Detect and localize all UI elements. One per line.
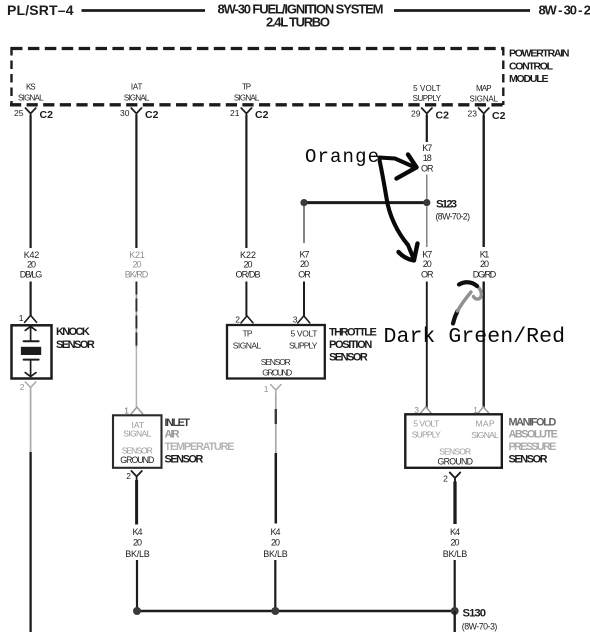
svg-text:SIGNAL: SIGNAL [123,429,151,439]
svg-text:C2: C2 [145,109,159,121]
pin 21 C2 TP SIGNAL [230,83,269,122]
svg-text:INLET: INLET [165,417,191,429]
svg-text:25: 25 [14,108,24,118]
PCM dashed box [10,47,504,105]
wire TP pin21 to K22 label [245,115,247,248]
splice dot left (node to TP 5V) [300,199,307,206]
wire label K7 20 OR (left) [298,250,311,280]
svg-text:KNOCK: KNOCK [56,326,90,338]
wire K22 label to TP sensor [245,282,247,317]
wire K7-18 label to splice S123 [426,175,428,200]
svg-text:SENSOR: SENSOR [439,446,471,456]
wire label K21 20 BK/RD [125,250,149,280]
pin 23 C2 MAP SIGNAL [468,84,506,122]
svg-text:BK/LB: BK/LB [263,549,288,559]
wire S123 to K7-20 label [426,207,428,248]
svg-text:IAT: IAT [131,83,143,92]
svg-text:Dark Green/Red: Dark Green/Red [384,325,566,349]
wire label K7 20 OR (right) [421,250,434,280]
wire TP ground dark blotch [275,409,277,424]
annotation arrow to K7 18 OR (head lower limb) [397,167,417,178]
svg-text:20: 20 [300,259,309,269]
IAT sensor box labels [122,420,153,456]
svg-text:Orange: Orange [305,146,379,168]
svg-text:SIGNAL: SIGNAL [234,94,260,103]
annotation arrow to K7 20 OR (shaft) [380,160,414,259]
svg-text:SENSOR: SENSOR [165,454,204,466]
svg-text:SUPPLY: SUPPLY [413,94,442,103]
svg-text:MODULE: MODULE [509,73,549,85]
wire label K4 20 BK/LB (middle) [263,527,288,559]
wire K21 label to IAT sensor (fading) [135,282,137,349]
wire MAP signal pin23 to K1 label [483,115,485,247]
svg-text:30: 30 [120,108,130,118]
svg-text:SENSOR: SENSOR [56,339,95,351]
annotation arrow to K7 18 OR (shaft) [380,158,414,167]
wire K42 label to knock sensor [30,282,32,317]
svg-text:MAP: MAP [476,418,495,428]
svg-text:20: 20 [27,260,36,270]
annotation gray arrow tail [453,311,458,324]
splice dot middle on S130 [271,607,279,615]
svg-text:CONTROL: CONTROL [509,60,554,72]
svg-text:TP: TP [243,329,253,339]
svg-text:THROTTLE: THROTTLE [329,327,377,339]
header rule left [82,9,206,12]
svg-text:S130: S130 [463,608,487,620]
svg-text:8W - 30 - 2: 8W - 30 - 2 [539,3,590,18]
svg-text:OR: OR [298,269,311,279]
svg-text:20: 20 [133,260,142,270]
svg-text:S123: S123 [436,198,457,210]
MAP sensor box [405,414,502,468]
wire MAP ground to S130 [454,560,456,608]
wire splice S123 horizontal [305,201,425,204]
MAP sensor box labels [412,418,499,456]
wire IAT ground upper [135,480,138,525]
svg-text:(8W-70-2): (8W-70-2) [436,212,471,222]
label POWERTRAIN CONTROL MODULE [509,48,570,86]
wire label K1 20 DG/RD [473,250,497,280]
svg-text:K21: K21 [129,250,145,260]
svg-text:20: 20 [451,537,460,547]
svg-text:SUPPLY: SUPPLY [412,430,441,440]
splice dot S130 [451,607,459,615]
svg-text:AIR: AIR [165,429,180,441]
TP sensor box labels [233,329,318,378]
wire below S130 [454,611,456,632]
svg-text:2: 2 [443,474,448,484]
svg-text:OR/DB: OR/DB [236,270,261,280]
wire IAT pin30 to K21 label [135,115,137,248]
svg-text:2: 2 [235,315,240,325]
svg-text:SUPPLY: SUPPLY [289,340,318,350]
svg-text:20: 20 [480,259,489,269]
wire TP ground black segment [275,453,278,524]
svg-text:GROUND: GROUND [437,457,473,467]
svg-text:K7: K7 [422,143,432,153]
svg-text:21: 21 [230,108,240,118]
svg-text:K7: K7 [300,250,310,260]
pin 30 C2 IAT SIGNAL [120,83,159,122]
wire KS pin25 to K42 label [30,115,32,248]
wire TP ground to S130 [274,560,276,608]
wire knock sensor ground (gray upper) [30,391,32,452]
svg-text:2: 2 [126,471,131,481]
wire 5V pin29 to K7-18 label [426,115,428,142]
wire label K22 20 OR/DB [236,250,261,280]
svg-text:K4: K4 [271,527,281,537]
svg-text:SIGNAL: SIGNAL [18,94,44,103]
wire K7-20 label to MAP sensor 5V pin [426,282,428,409]
svg-text:K4: K4 [450,527,460,537]
svg-text:SIGNAL: SIGNAL [471,430,499,440]
wire label K4 20 BK/LB (right) [443,527,468,559]
svg-text:MAP: MAP [476,84,492,93]
wire MAP ground upper [453,482,456,525]
svg-text:POWERTRAIN: POWERTRAIN [509,48,570,60]
svg-text:K22: K22 [240,250,256,260]
svg-text:29: 29 [411,109,421,119]
svg-text:SENSOR: SENSOR [261,357,291,367]
svg-text:KS: KS [26,83,36,92]
annotation gray arrow curl [474,286,482,299]
svg-text:K1: K1 [480,250,490,260]
splice dot left on S130 [133,607,141,615]
svg-text:23: 23 [468,109,478,119]
wire label K42 20 DB/LG [20,250,43,280]
svg-text:C2: C2 [436,110,450,122]
wire knock sensor ground (black lower) [29,452,31,632]
annotation gray arrow head [459,282,477,286]
splice dot S123 [423,199,430,206]
pin 29 C2 5 VOLT SUPPLY [411,84,449,122]
IAT sensor box [113,415,162,468]
svg-text:TP: TP [242,83,251,92]
annotation arrow to K7 18 OR (head upper limb) [408,155,417,168]
pin 25 C2 KS SIGNAL [14,83,53,122]
svg-text:PL/SRT–4: PL/SRT–4 [7,2,74,18]
svg-text:PRESSURE: PRESSURE [509,441,557,453]
svg-text:K7: K7 [422,250,432,260]
svg-text:SIGNAL: SIGNAL [124,94,150,103]
svg-text:TEMPERATURE: TEMPERATURE [165,441,235,453]
svg-text:5 VOLT: 5 VOLT [413,84,441,93]
svg-text:BK/LB: BK/LB [125,549,150,559]
svg-text:GROUND: GROUND [262,367,292,377]
svg-text:1: 1 [124,406,129,416]
svg-text:SENSOR: SENSOR [509,453,548,465]
svg-text:SENSOR: SENSOR [329,352,368,364]
svg-text:20: 20 [271,537,280,547]
svg-text:BK/LB: BK/LB [443,549,468,559]
svg-text:OR: OR [421,269,434,279]
svg-text:DG/RD: DG/RD [473,269,497,279]
svg-text:ABSOLUTE: ABSOLUTE [509,429,558,441]
svg-text:POSITION: POSITION [329,339,372,351]
svg-text:1: 1 [264,384,269,394]
svg-text:C2: C2 [40,109,54,121]
wire K7 label to TP sensor 5V pin [303,282,305,317]
throttle position sensor box [227,325,325,379]
svg-text:20: 20 [423,259,432,269]
svg-text:MANIFOLD: MANIFOLD [509,417,557,429]
knock sensor piezo element [21,326,41,376]
svg-text:K4: K4 [133,527,143,537]
svg-text:18: 18 [423,153,432,163]
svg-text:OR: OR [421,163,434,173]
svg-text:1: 1 [19,313,24,323]
svg-text:(8W-70-3): (8W-70-3) [462,621,498,631]
svg-text:C2: C2 [492,110,506,122]
wire S130 horizontal [137,610,455,612]
svg-text:GROUND: GROUND [120,455,154,465]
wire label K7 18 OR [421,143,434,173]
svg-text:C2: C2 [255,109,269,121]
wire K7 splice to label (left branch) [303,206,305,244]
annotation arrow to K7 20 OR (head left limb) [399,252,415,261]
annotation arrow to K7 20 OR (head right limb) [414,244,418,261]
knock sensor box [12,325,52,378]
svg-text:DB/LG: DB/LG [20,270,43,280]
annotation gray arrow shaft [458,292,472,311]
svg-text:20: 20 [133,537,142,547]
wire IAT ground lower to S130 [136,560,138,608]
svg-text:SIGNAL: SIGNAL [233,340,262,350]
svg-text:5 VOLT: 5 VOLT [291,329,318,339]
wire TP ground gray segment [275,394,277,454]
svg-text:5 VOLT: 5 VOLT [413,418,439,428]
svg-text:20: 20 [244,260,253,270]
svg-text:2.4L TURBO: 2.4L TURBO [266,15,330,30]
svg-text:BK/RD: BK/RD [125,270,149,280]
svg-text:SIGNAL: SIGNAL [470,95,499,104]
svg-text:K42: K42 [24,250,40,260]
header rule right [394,9,530,12]
wire K1 label to MAP sensor signal pin [483,282,485,409]
svg-text:2: 2 [20,382,25,392]
wire label K4 20 BK/LB (left) [125,527,150,559]
